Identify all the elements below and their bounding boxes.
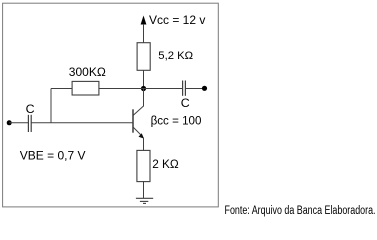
capacitor C1 (input)	[28, 115, 31, 132]
svg-text:300KΩ: 300KΩ	[69, 65, 106, 79]
wire capacitor to output terminal	[185, 88, 204, 90]
svg-text:5,2 KΩ: 5,2 KΩ	[158, 50, 193, 62]
svg-text:VBE = 0,7 V: VBE = 0,7 V	[20, 149, 86, 163]
resistor R1 5,2 KΩ	[137, 43, 150, 71]
svg-text:C: C	[181, 96, 190, 110]
border frame	[3, 3, 219, 207]
wire R2 to collector node	[99, 88, 144, 90]
node input terminal	[7, 120, 12, 125]
node collector junction	[141, 86, 146, 91]
svg-text:Fonte: Arquivo da Banca Elabor: Fonte: Arquivo da Banca Elaboradora.	[225, 205, 376, 217]
Vcc power arrow	[141, 16, 147, 43]
transistor Q1	[133, 89, 144, 139]
svg-text:C: C	[26, 102, 35, 116]
wire feedback vertical	[50, 89, 52, 123]
wire input terminal to capacitor	[9, 122, 28, 124]
wire R3 to ground	[143, 181, 145, 198]
node output terminal	[202, 86, 207, 91]
resistor R3 2 KΩ	[137, 150, 150, 181]
wire feedback top to R2	[51, 88, 72, 90]
resistor R2 300KΩ	[72, 81, 99, 95]
wire emitter to R3	[143, 138, 145, 151]
wire input capacitor to base	[31, 122, 133, 124]
svg-text:Vcc = 12 v: Vcc = 12 v	[149, 13, 205, 27]
capacitor C2 (output)	[183, 81, 186, 96]
svg-text:βcc = 100: βcc = 100	[151, 114, 202, 127]
svg-text:2 KΩ: 2 KΩ	[152, 157, 179, 171]
wire collector node to output capacitor	[144, 88, 183, 90]
wire R1 bottom to collector node	[143, 70, 145, 89]
ground	[136, 198, 153, 203]
